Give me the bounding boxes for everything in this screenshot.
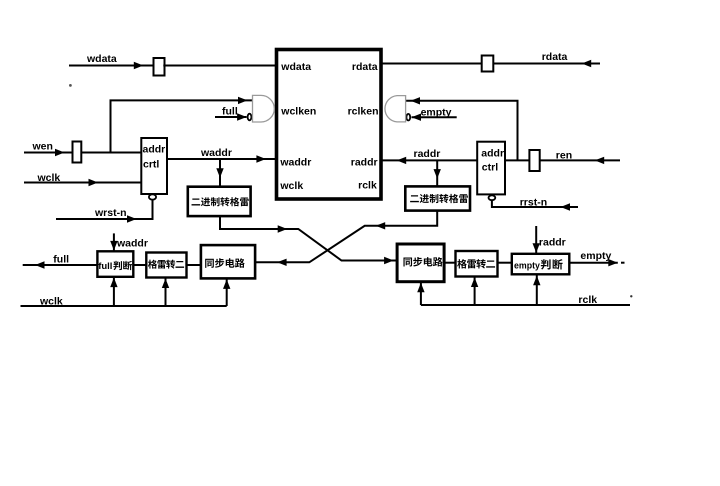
gray2bin block left — [146, 253, 186, 278]
arrow raddr stub — [533, 243, 540, 253]
svg-text:wdata: wdata — [86, 53, 117, 65]
svg-text:ctrl: ctrl — [482, 162, 498, 174]
wire bubble drop left — [152, 200, 154, 219]
register on wdata — [154, 58, 165, 76]
bin2gray block left — [188, 187, 251, 216]
svg-text:raddr: raddr — [539, 237, 566, 249]
svg-text:wdata: wdata — [280, 61, 311, 73]
port label rclken — [348, 105, 379, 117]
svg-text:full: full — [53, 254, 69, 266]
wire full stub — [215, 116, 247, 118]
port label waddr — [279, 156, 311, 168]
wire empty output — [569, 262, 618, 264]
wire rclk bus — [421, 304, 630, 306]
wire sync to gray2bin right — [444, 262, 455, 264]
port label wdata — [280, 61, 311, 73]
wire ren riser to gate — [406, 101, 518, 161]
full judge block — [97, 251, 133, 276]
port label rclk — [358, 179, 377, 191]
arrow full output — [35, 261, 45, 268]
svg-text:full: full — [98, 261, 112, 272]
wire bubble drop right — [491, 201, 578, 207]
label waddr top — [200, 147, 232, 159]
svg-text:rdata: rdata — [542, 51, 568, 63]
arrow wrst-n — [127, 215, 137, 222]
sync block right — [397, 244, 444, 282]
arrow empty — [412, 114, 422, 121]
wire wclk riser 1 — [113, 277, 115, 306]
arrow wen — [55, 149, 65, 156]
label full output — [53, 254, 69, 266]
stray dot upper left — [69, 84, 72, 87]
label full — [222, 105, 238, 117]
arrow rrst-n — [561, 203, 571, 210]
svg-text:waddr: waddr — [200, 147, 232, 159]
arrow rclk riser 3 — [533, 276, 540, 286]
reset bubble right ctrl — [489, 195, 496, 200]
wire waddr branch down — [219, 159, 221, 187]
wire ren — [505, 159, 620, 161]
port label rdata — [352, 61, 378, 73]
label rclk bottom — [578, 294, 597, 306]
wire empty dash stub — [621, 262, 625, 264]
wire wrst-n — [56, 218, 154, 220]
svg-text:raddr: raddr — [351, 156, 378, 168]
label wen — [32, 140, 53, 152]
arrow waddr — [256, 155, 266, 162]
label rdata — [542, 51, 568, 63]
wire waddr — [167, 158, 277, 160]
svg-text:rclk: rclk — [358, 179, 377, 191]
label rrst-n — [520, 197, 547, 209]
arrow rdata — [582, 60, 592, 67]
arrow ren — [595, 157, 605, 164]
arrow wdata — [134, 62, 144, 69]
wire rclk riser 1 — [420, 282, 422, 305]
wire cross A — [220, 216, 397, 260]
wire gray2bin to sync left — [187, 264, 201, 266]
label ren — [556, 149, 572, 161]
arrow rclk riser 2 — [471, 278, 478, 288]
label wclk bottom — [39, 295, 63, 307]
wire cross B — [255, 211, 437, 263]
svg-text:full: full — [222, 105, 238, 117]
wire wdata left — [69, 65, 153, 67]
wire waddr stub down — [113, 233, 115, 251]
label waddr bottom — [116, 238, 148, 250]
arrow wclk — [89, 179, 99, 186]
svg-text:ren: ren — [556, 149, 572, 161]
label wrst-n — [94, 207, 127, 219]
stray dot lower right — [630, 295, 632, 297]
arrow waddr branch — [216, 168, 223, 178]
arrow gate R top input — [411, 97, 421, 104]
gray2bin block right — [456, 251, 498, 277]
AND gate U3 rclken — [385, 96, 406, 122]
label raddr top — [414, 148, 441, 160]
arrow wclk riser 2 — [162, 279, 169, 289]
wire wdata right — [163, 65, 276, 67]
svg-text:waddr: waddr — [279, 156, 311, 168]
wire full judge to gray2bin — [133, 264, 146, 266]
arrow cross B1 — [376, 222, 386, 229]
arrow raddr branch — [434, 169, 441, 179]
arrow empty output — [608, 259, 618, 266]
svg-text:wclken: wclken — [280, 105, 316, 117]
wire wen left — [24, 152, 73, 154]
wire rdata right — [493, 63, 600, 65]
write addr ctrl block — [141, 138, 167, 194]
arrow cross B2 — [277, 259, 287, 266]
svg-text:wen: wen — [32, 140, 53, 152]
inverter bubble at wclken gate — [248, 114, 252, 121]
port label wclk — [279, 180, 303, 192]
arrow rclk riser 1 — [417, 283, 424, 293]
dual-port RAM block U1 — [277, 50, 382, 200]
arrow full — [237, 113, 247, 120]
svg-text:rrst-n: rrst-n — [520, 197, 547, 209]
svg-text:empty: empty — [580, 250, 611, 262]
svg-text:wclk: wclk — [279, 180, 303, 192]
wire wclk — [24, 182, 141, 184]
wire rdata left — [381, 63, 482, 65]
wire raddr stub down — [535, 226, 537, 254]
svg-text:wrst-n: wrst-n — [94, 207, 127, 219]
svg-text:empty: empty — [514, 260, 540, 270]
port label raddr — [351, 156, 378, 168]
wire wen right — [81, 152, 141, 154]
arrow wclk riser 1 — [110, 278, 117, 288]
empty judge block — [512, 254, 570, 274]
wire rclk riser 2 — [474, 277, 476, 306]
wire rclk riser 3 — [536, 275, 538, 305]
wire wclk bus — [21, 305, 227, 307]
register on wen — [73, 142, 82, 163]
reset bubble left ctrl — [149, 194, 156, 199]
label raddr bottom — [539, 237, 566, 249]
label empty output — [580, 250, 611, 262]
wire wclk riser 2 — [165, 278, 167, 307]
inverter bubble at rclken gate — [406, 114, 410, 121]
arrow wclk riser 3 — [223, 279, 230, 289]
wire raddr — [381, 159, 478, 161]
svg-text:crtl: crtl — [143, 159, 159, 171]
register on rdata — [482, 56, 494, 72]
label empty — [421, 107, 452, 119]
register on ren — [529, 150, 539, 171]
port label wclken — [280, 105, 316, 117]
svg-text:raddr: raddr — [414, 148, 441, 160]
svg-text:addr: addr — [143, 144, 166, 156]
arrow cross A1 — [278, 225, 288, 232]
svg-text:rdata: rdata — [352, 61, 378, 73]
label wdata — [86, 53, 117, 65]
sync block left — [201, 245, 255, 278]
bin2gray block right — [405, 186, 470, 210]
label wclk — [37, 172, 61, 184]
arrow gate top input — [238, 97, 248, 104]
read addr ctrl block — [477, 142, 505, 195]
arrow raddr — [397, 157, 407, 164]
AND gate U2 wclken — [253, 95, 275, 122]
wire wclk riser 3 — [226, 278, 228, 306]
wire raddr branch down — [436, 160, 438, 186]
svg-text:rclken: rclken — [348, 105, 379, 117]
svg-text:addr: addr — [481, 147, 504, 159]
wire empty stub — [412, 116, 457, 118]
svg-text:waddr: waddr — [116, 238, 148, 250]
wire wen riser to gate — [111, 100, 253, 152]
wire full output — [23, 264, 98, 266]
wire gray2bin to empty judge — [498, 262, 512, 264]
arrow waddr stub — [110, 241, 117, 251]
arrow cross A2 — [384, 257, 394, 264]
